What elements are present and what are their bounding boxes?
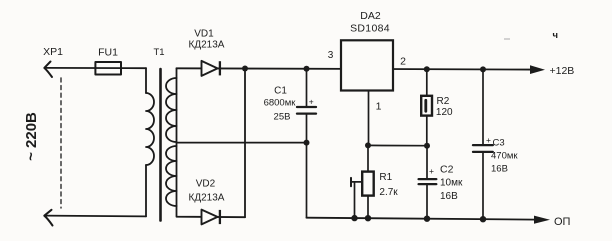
- transformer T1 core: [159, 69, 162, 221]
- svg-text:С2: С2: [440, 164, 454, 176]
- svg-text:2.7к: 2.7к: [379, 187, 398, 198]
- diode VD2: [202, 210, 220, 225]
- resistor R1 (trimmer): [351, 145, 374, 218]
- wire: bottom rail from C1 to OP arrow: [307, 218, 536, 220]
- svg-text:R1: R1: [379, 172, 392, 183]
- capacitor C2: [419, 146, 437, 219]
- node: VD1/VD2 cathode junction on top rail: [242, 66, 248, 72]
- svg-text:КД213А: КД213А: [189, 40, 225, 51]
- fuse FU1: [95, 62, 121, 75]
- node: wiper drop on bottom rail: [351, 215, 357, 221]
- svg-text:+: +: [309, 97, 314, 107]
- svg-text:ХР1: ХР1: [43, 46, 63, 58]
- svg-text:R2: R2: [437, 96, 450, 107]
- svg-text:VD1: VD1: [194, 29, 214, 40]
- wire: adjust net from pin1 to R2/C2 node: [368, 144, 428, 146]
- svg-text:+12В: +12В: [550, 65, 575, 77]
- svg-text:3: 3: [328, 50, 334, 61]
- transformer T1 primary lead (bottom): [145, 165, 147, 216]
- svg-text:VD2: VD2: [196, 179, 216, 190]
- wire: mains bottom segment from XP1 pin to T1 primary: [45, 215, 147, 218]
- capacitor C1: [297, 69, 316, 218]
- svg-text:+: +: [429, 166, 434, 176]
- svg-text:470мк: 470мк: [491, 151, 518, 162]
- svg-text:SD1084: SD1084: [350, 23, 390, 35]
- svg-text:16В: 16В: [491, 164, 508, 175]
- resistor R2: [421, 69, 432, 146]
- svg-text:С3: С3: [493, 138, 505, 149]
- svg-text:16В: 16В: [440, 191, 458, 202]
- svg-text:6800мк: 6800мк: [264, 98, 297, 109]
- svg-text:ОП: ОП: [554, 216, 571, 228]
- connector XP1 boundary (dashed): [60, 78, 62, 208]
- node: C3 top on rail: [480, 66, 486, 72]
- svg-text:ч: ч: [553, 30, 559, 41]
- svg-text:+: +: [486, 135, 491, 145]
- svg-text:10мк: 10мк: [440, 178, 463, 189]
- svg-text:FU1: FU1: [98, 47, 118, 59]
- node: R2 top on rail: [424, 66, 430, 72]
- node: R1 bottom on bottom rail: [365, 215, 371, 221]
- node: center tap joins C1 bottom lead: [304, 140, 310, 146]
- svg-text:~ 220В: ~ 220В: [23, 112, 40, 161]
- output OP (common) arrowhead: [534, 216, 550, 224]
- wire: center tap of T1 to C1 bottom node: [177, 142, 307, 144]
- wire: mains top segment from XP1 pin to T1 primary: [45, 67, 146, 69]
- connector XP1 pin (bottom arrow): [44, 210, 52, 226]
- svg-text:Т1: Т1: [153, 47, 164, 58]
- wire: secondary bottom lead to VD2: [177, 206, 246, 217]
- transformer T1 secondary conductor line: [176, 68, 178, 206]
- transformer T1 secondary upper winding: [166, 78, 177, 142]
- transformer T1 secondary lower winding: [166, 146, 177, 206]
- output +12V arrowhead: [530, 65, 545, 74]
- wire: top rail from secondary through VD1 and DA2 to +12V arrow: [177, 68, 532, 69]
- svg-text:С1: С1: [274, 86, 287, 97]
- node: pin1 / R1 top: [365, 142, 371, 148]
- svg-text:КД213А: КД213А: [189, 193, 225, 204]
- capacitor C3: [473, 69, 493, 219]
- connector XP1 pin (top arrow): [44, 62, 52, 78]
- svg-text:25В: 25В: [274, 112, 291, 123]
- node: R2 bottom / C2 top: [424, 143, 430, 149]
- node: C1 top on rail: [304, 66, 310, 72]
- IC DA2 (SD1084 regulator): [341, 40, 393, 90]
- svg-text:2: 2: [400, 56, 406, 68]
- svg-text:1: 1: [376, 101, 382, 113]
- wire: pin 1 down to adjust net: [368, 91, 370, 146]
- wire: riser from VD2 cathode to top rail node: [244, 69, 246, 218]
- node: C2 bottom on bottom rail: [424, 216, 430, 222]
- svg-text:DA2: DA2: [360, 10, 381, 22]
- transformer T1 primary winding: [146, 93, 154, 165]
- transformer T1 primary lead (top): [145, 68, 147, 93]
- svg-text:120: 120: [436, 107, 453, 118]
- node: C3 bottom on bottom rail: [480, 216, 486, 222]
- diode VD1: [202, 61, 220, 76]
- stray dash (scan artifact): [504, 38, 510, 40]
